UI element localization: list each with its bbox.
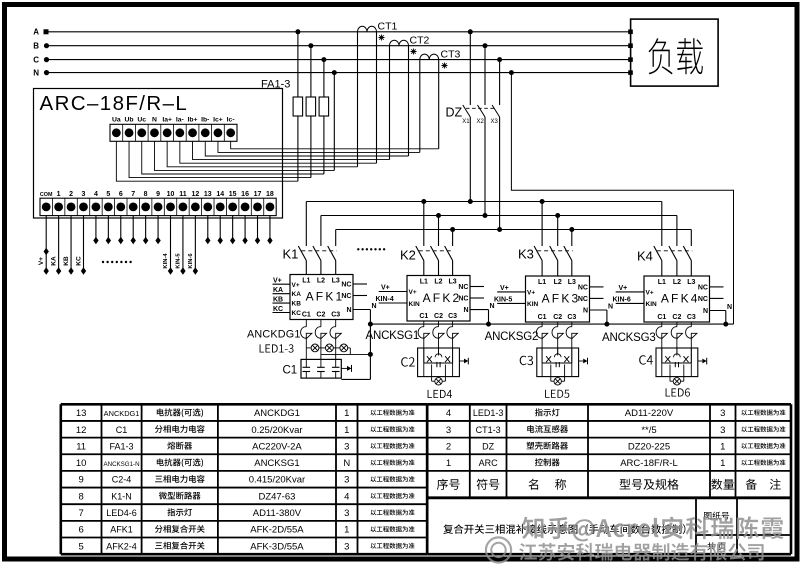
svg-text:DZ: DZ <box>482 441 494 451</box>
svg-text:CT1: CT1 <box>378 21 398 33</box>
svg-text:11: 11 <box>179 191 187 198</box>
svg-text:NC: NC <box>341 293 351 300</box>
svg-text:KA: KA <box>273 287 283 294</box>
svg-text:X3: X3 <box>491 119 499 125</box>
svg-text:LED4-6: LED4-6 <box>106 508 137 518</box>
svg-text:8: 8 <box>79 491 84 502</box>
wire N tap to ARC terminal <box>332 70 337 170</box>
svg-text:14: 14 <box>216 191 224 198</box>
current transformer CT2 <box>390 35 430 160</box>
svg-text:13: 13 <box>76 408 87 419</box>
svg-text:V+: V+ <box>273 278 282 285</box>
controller ARC-18F/R-L box <box>34 89 283 219</box>
wire DZ pole2 to bus L2 <box>483 117 488 218</box>
svg-text:NC: NC <box>458 284 468 291</box>
svg-text:V+: V+ <box>381 285 390 292</box>
svg-text:N: N <box>346 307 351 314</box>
wire lamp common to N riser <box>321 353 371 355</box>
svg-text:FA1-3: FA1-3 <box>110 441 134 451</box>
circuit breaker DZ <box>446 29 503 125</box>
wire terminal 11 (KIN-5) <box>176 216 186 275</box>
svg-text:7: 7 <box>131 191 135 198</box>
capacitor C3 with lamp LED5 <box>520 348 588 398</box>
svg-text:0.25/20Kvar: 0.25/20Kvar <box>251 425 302 436</box>
svg-text:18: 18 <box>266 191 274 198</box>
wire ARC terminal Ic- to riser <box>231 141 439 149</box>
svg-text:4: 4 <box>446 408 451 419</box>
ellipsis unused terminals <box>102 261 132 263</box>
svg-text:C2-4: C2-4 <box>112 475 132 485</box>
phase line A <box>33 28 633 37</box>
svg-text:KIN: KIN <box>409 301 421 308</box>
svg-text:V+: V+ <box>500 285 509 292</box>
svg-text:CT1-3: CT1-3 <box>476 425 501 435</box>
svg-text:C1: C1 <box>116 425 128 435</box>
svg-text:3: 3 <box>344 441 349 452</box>
svg-text:DZ47-63: DZ47-63 <box>258 491 295 502</box>
wire AFK2 N pin to N bus <box>470 303 495 327</box>
svg-text:ARC–18F/R–L: ARC–18F/R–L <box>40 92 189 115</box>
svg-text:C3: C3 <box>448 313 457 320</box>
svg-text:N: N <box>372 303 377 310</box>
svg-text:L3: L3 <box>568 279 576 286</box>
parts table header row <box>437 479 781 490</box>
wire AFK4 N pin to N bus <box>710 304 733 327</box>
svg-text:9: 9 <box>79 475 84 486</box>
svg-text:5: 5 <box>106 191 110 198</box>
svg-text:AFK1: AFK1 <box>110 525 133 535</box>
svg-text:KIN: KIN <box>527 301 539 308</box>
watermark text line 1 <box>522 516 783 541</box>
svg-text:3: 3 <box>446 425 451 436</box>
wire AFK1 N pin to N bus and C1 <box>341 303 376 379</box>
wire DZ pole3 to bus L3 <box>497 117 502 232</box>
svg-text:4: 4 <box>344 491 349 502</box>
capacitor C2 with lamp LED4 <box>401 348 468 398</box>
svg-text:L3: L3 <box>687 279 695 286</box>
svg-text:9: 9 <box>156 191 160 198</box>
wire neutral N to AFK N bus <box>509 70 734 324</box>
svg-text:6: 6 <box>119 191 123 198</box>
svg-text:AFK2: AFK2 <box>423 291 462 305</box>
svg-text:NC: NC <box>698 296 708 303</box>
svg-text:17: 17 <box>254 191 262 198</box>
svg-text:KB: KB <box>63 256 70 266</box>
neutral line N <box>33 68 633 77</box>
svg-text:LED1-3: LED1-3 <box>473 408 504 418</box>
svg-text:KIN-4: KIN-4 <box>163 253 169 269</box>
label LED1-3 <box>260 344 294 352</box>
wire terminal 2 (KB) <box>63 216 74 275</box>
svg-text:L2: L2 <box>554 279 562 286</box>
svg-text:C1: C1 <box>538 314 547 321</box>
svg-text:Ia-: Ia- <box>176 117 184 124</box>
svg-text:KB: KB <box>292 301 302 308</box>
svg-text:2: 2 <box>446 441 451 452</box>
svg-text:Ic+: Ic+ <box>213 117 223 124</box>
svg-text:ARC: ARC <box>479 458 499 468</box>
svg-text:**/5: **/5 <box>641 425 656 436</box>
svg-text:KIN-4: KIN-4 <box>376 296 394 303</box>
fuse FA3 (phase C tap) <box>319 57 329 174</box>
svg-text:2: 2 <box>69 191 73 198</box>
svg-text:N: N <box>490 303 495 310</box>
load box (negative load) <box>631 19 719 86</box>
svg-text:N: N <box>727 304 732 311</box>
connectors below AFK1 outputs <box>301 320 342 360</box>
svg-text:3: 3 <box>720 425 725 436</box>
svg-text:Ib+: Ib+ <box>188 117 198 124</box>
composite switch AFK4 <box>613 276 724 322</box>
parts table left rows text <box>76 408 415 552</box>
svg-text:11: 11 <box>76 441 86 452</box>
svg-text:1: 1 <box>344 408 349 419</box>
watermark zhihu stamp <box>486 537 511 562</box>
svg-text:ANCKDG1: ANCKDG1 <box>247 329 301 341</box>
svg-text:Uc: Uc <box>137 117 146 124</box>
svg-text:K4: K4 <box>637 249 653 264</box>
svg-text:1: 1 <box>344 525 349 536</box>
parts table right grid <box>427 404 791 554</box>
connectors below AFK4 outputs <box>656 322 697 363</box>
bus line L3 <box>336 227 692 232</box>
svg-text:C2: C2 <box>316 311 325 318</box>
svg-text:3: 3 <box>720 408 725 419</box>
svg-text:ARC-18F/R-L: ARC-18F/R-L <box>620 458 678 469</box>
svg-text:NC: NC <box>578 284 588 291</box>
svg-text:A: A <box>33 28 39 37</box>
title block <box>443 498 791 554</box>
svg-text:ANCKDG1: ANCKDG1 <box>104 409 140 418</box>
svg-text:3: 3 <box>82 191 86 198</box>
svg-text:NC: NC <box>578 296 588 303</box>
wire ARC terminal Uc to riser <box>142 141 324 174</box>
svg-text:V+: V+ <box>646 290 654 297</box>
wire ARC terminal Ib+ to riser <box>193 141 390 159</box>
svg-text:CT2: CT2 <box>410 35 430 47</box>
breaker K3 <box>518 202 573 277</box>
svg-text:DZ: DZ <box>446 106 463 120</box>
svg-text:KC: KC <box>273 306 283 313</box>
svg-text:KIN-5: KIN-5 <box>494 297 512 304</box>
svg-text:13: 13 <box>204 191 212 198</box>
svg-text:3: 3 <box>344 508 349 519</box>
wire DZ pole1 to bus L1 <box>468 117 473 204</box>
svg-text:0.415/20Kvar: 0.415/20Kvar <box>249 475 306 486</box>
svg-text:8: 8 <box>144 191 148 198</box>
svg-text:3: 3 <box>344 541 349 552</box>
svg-text:V+: V+ <box>292 282 300 289</box>
svg-text:C1: C1 <box>302 311 311 318</box>
svg-text:C2: C2 <box>553 314 562 321</box>
svg-text:V+: V+ <box>38 257 45 265</box>
svg-text:X1: X1 <box>462 119 470 125</box>
composite switch AFK1 <box>273 275 368 320</box>
svg-text:AC220V-2A: AC220V-2A <box>252 441 302 452</box>
svg-text:1: 1 <box>720 458 725 469</box>
svg-text:ANCKSG3: ANCKSG3 <box>602 332 656 344</box>
wire ARC terminal Ib- to riser <box>205 141 408 156</box>
svg-text:N: N <box>33 68 39 77</box>
watermark text line 2 <box>519 543 763 561</box>
svg-text:1: 1 <box>344 425 349 436</box>
svg-text:ANCKSG1-N: ANCKSG1-N <box>103 461 139 468</box>
svg-text:ANCKSG1: ANCKSG1 <box>254 458 299 469</box>
svg-text:V+: V+ <box>527 290 535 297</box>
svg-text:C1: C1 <box>657 314 666 321</box>
svg-text:Ua: Ua <box>112 117 121 124</box>
svg-text:6: 6 <box>79 525 84 536</box>
svg-text:KIN-6: KIN-6 <box>613 297 631 304</box>
svg-text:AFK-2D/55A: AFK-2D/55A <box>250 525 304 536</box>
svg-text:AD11-380V: AD11-380V <box>253 508 302 519</box>
svg-text:AFK4: AFK4 <box>661 292 700 306</box>
wire ARC terminal Ub to riser <box>129 141 311 177</box>
svg-text:L1: L1 <box>302 278 310 285</box>
svg-text:ANCKSG2: ANCKSG2 <box>485 331 539 343</box>
ellipsis between K1 and K2 <box>357 248 385 250</box>
svg-text:DZ20-225: DZ20-225 <box>628 441 670 452</box>
current transformer CT1 <box>358 21 398 167</box>
svg-text:5: 5 <box>79 541 84 552</box>
wire terminal 10 (KIN-4) <box>163 216 173 275</box>
svg-text:N: N <box>343 458 350 469</box>
svg-text:C2: C2 <box>672 314 681 321</box>
wire AFK3 N pin to N bus <box>590 303 614 326</box>
fuse FA1 (phase A tap) <box>293 29 303 181</box>
svg-text:AD11-220V: AD11-220V <box>625 408 674 419</box>
breaker K1 <box>283 202 337 275</box>
svg-text:V+: V+ <box>409 289 417 296</box>
ARC voltage/current terminal strip <box>110 117 237 142</box>
svg-text:K2: K2 <box>400 248 416 263</box>
svg-text:Ib-: Ib- <box>201 117 209 124</box>
svg-text:NC: NC <box>698 284 708 291</box>
svg-text:K3: K3 <box>518 247 534 262</box>
svg-text:B: B <box>33 42 39 51</box>
capacitor bank C1 <box>283 359 352 378</box>
svg-text:12: 12 <box>191 191 199 198</box>
svg-text:12: 12 <box>76 425 87 436</box>
wire ARC terminal Ia+ to riser <box>167 141 357 167</box>
breaker K2 <box>400 202 454 276</box>
wires terminals 13-18 <box>205 216 272 245</box>
svg-text:N: N <box>463 307 468 314</box>
svg-text:KA: KA <box>50 256 57 266</box>
svg-text:C3: C3 <box>687 314 696 321</box>
phase line B <box>33 42 633 51</box>
N bus connecting AFK modules <box>370 323 733 325</box>
svg-text:15: 15 <box>229 191 237 198</box>
ARC I/O terminal strip COM,1-18 <box>40 191 276 216</box>
phase line C <box>33 55 633 64</box>
breaker K4 <box>637 202 692 277</box>
wire ARC terminal Ua to riser <box>116 141 298 181</box>
svg-text:10: 10 <box>76 458 87 469</box>
svg-text:AFK1: AFK1 <box>306 290 345 304</box>
svg-text:KIN-6: KIN-6 <box>188 253 194 269</box>
parts table right rows text <box>446 408 786 469</box>
svg-text:N: N <box>703 308 708 315</box>
svg-text:C2: C2 <box>434 313 443 320</box>
connectors below AFK3 outputs <box>536 322 577 363</box>
wire terminal 3 (KC) <box>75 216 86 275</box>
svg-text:AFK3: AFK3 <box>542 292 581 306</box>
svg-text:K1-N: K1-N <box>111 491 132 501</box>
svg-text:N: N <box>608 303 613 310</box>
svg-text:KA: KA <box>292 291 302 298</box>
bus line L1 <box>306 199 662 204</box>
current transformer CT3 <box>420 49 461 153</box>
svg-text:Ic-: Ic- <box>227 117 235 124</box>
fuse FA2 (phase B tap) <box>306 43 316 177</box>
svg-text:COM: COM <box>40 192 53 198</box>
svg-text:7: 7 <box>79 508 84 519</box>
svg-text:KC: KC <box>75 256 82 266</box>
svg-text:C: C <box>33 55 39 64</box>
svg-text:L1: L1 <box>420 279 428 286</box>
svg-text:V+: V+ <box>619 285 628 292</box>
wire COM terminal (V+) <box>38 216 49 275</box>
svg-text:NC: NC <box>341 282 351 289</box>
wire terminal 12 (KIN-6) <box>188 216 198 275</box>
svg-text:L1: L1 <box>658 279 666 286</box>
svg-text:KIN-5: KIN-5 <box>176 253 182 269</box>
svg-text:KB: KB <box>273 297 283 304</box>
svg-text:N: N <box>583 308 588 315</box>
svg-text:L2: L2 <box>673 279 681 286</box>
svg-text:L1: L1 <box>538 279 546 286</box>
svg-text:1: 1 <box>446 458 451 469</box>
svg-text:K1: K1 <box>283 247 299 262</box>
svg-text:Ia+: Ia+ <box>162 117 172 124</box>
svg-text:CT3: CT3 <box>441 49 461 61</box>
svg-text:C3: C3 <box>331 311 340 318</box>
svg-text:1: 1 <box>720 441 725 452</box>
svg-text:N: N <box>152 117 157 124</box>
wire terminal 1 (KA) <box>50 216 61 275</box>
connectors below AFK2 outputs <box>418 321 458 363</box>
svg-text:AFK2-4: AFK2-4 <box>106 541 137 551</box>
svg-text:KC: KC <box>292 310 302 317</box>
wire ARC terminal Ic+ to riser <box>218 141 420 152</box>
svg-text:KIN: KIN <box>646 301 658 308</box>
svg-text:4: 4 <box>94 191 98 198</box>
svg-text:16: 16 <box>241 191 249 198</box>
svg-text:Ub: Ub <box>125 117 134 124</box>
svg-text:C3: C3 <box>567 314 576 321</box>
svg-text:C1: C1 <box>419 313 428 320</box>
composite switch AFK2 <box>376 276 485 322</box>
svg-text:3: 3 <box>344 475 349 486</box>
wires terminals 4-9 <box>93 216 160 245</box>
svg-text:L2: L2 <box>434 279 442 286</box>
svg-text:ANCKSG1: ANCKSG1 <box>366 330 420 342</box>
svg-text:L3: L3 <box>332 278 340 285</box>
svg-text:1: 1 <box>57 191 61 198</box>
svg-text:ANCKDG1: ANCKDG1 <box>254 408 300 419</box>
parts table left grid <box>61 404 427 554</box>
composite switch AFK3 <box>494 276 604 322</box>
svg-text:L2: L2 <box>317 278 325 285</box>
svg-text:C1: C1 <box>283 365 298 377</box>
wire ARC terminal Ia- to riser <box>180 141 377 163</box>
svg-text:X2: X2 <box>477 119 485 125</box>
svg-text:10: 10 <box>167 191 175 198</box>
svg-text:NC: NC <box>458 296 468 303</box>
wire ARC terminal N to riser <box>154 141 334 170</box>
bus line L2 <box>321 213 677 218</box>
indicator lamps LED1-3 <box>306 344 350 354</box>
svg-text:L3: L3 <box>449 279 457 286</box>
svg-text:AFK-3D/55A: AFK-3D/55A <box>250 541 304 552</box>
capacitor C4 with lamp LED6 <box>639 348 707 397</box>
